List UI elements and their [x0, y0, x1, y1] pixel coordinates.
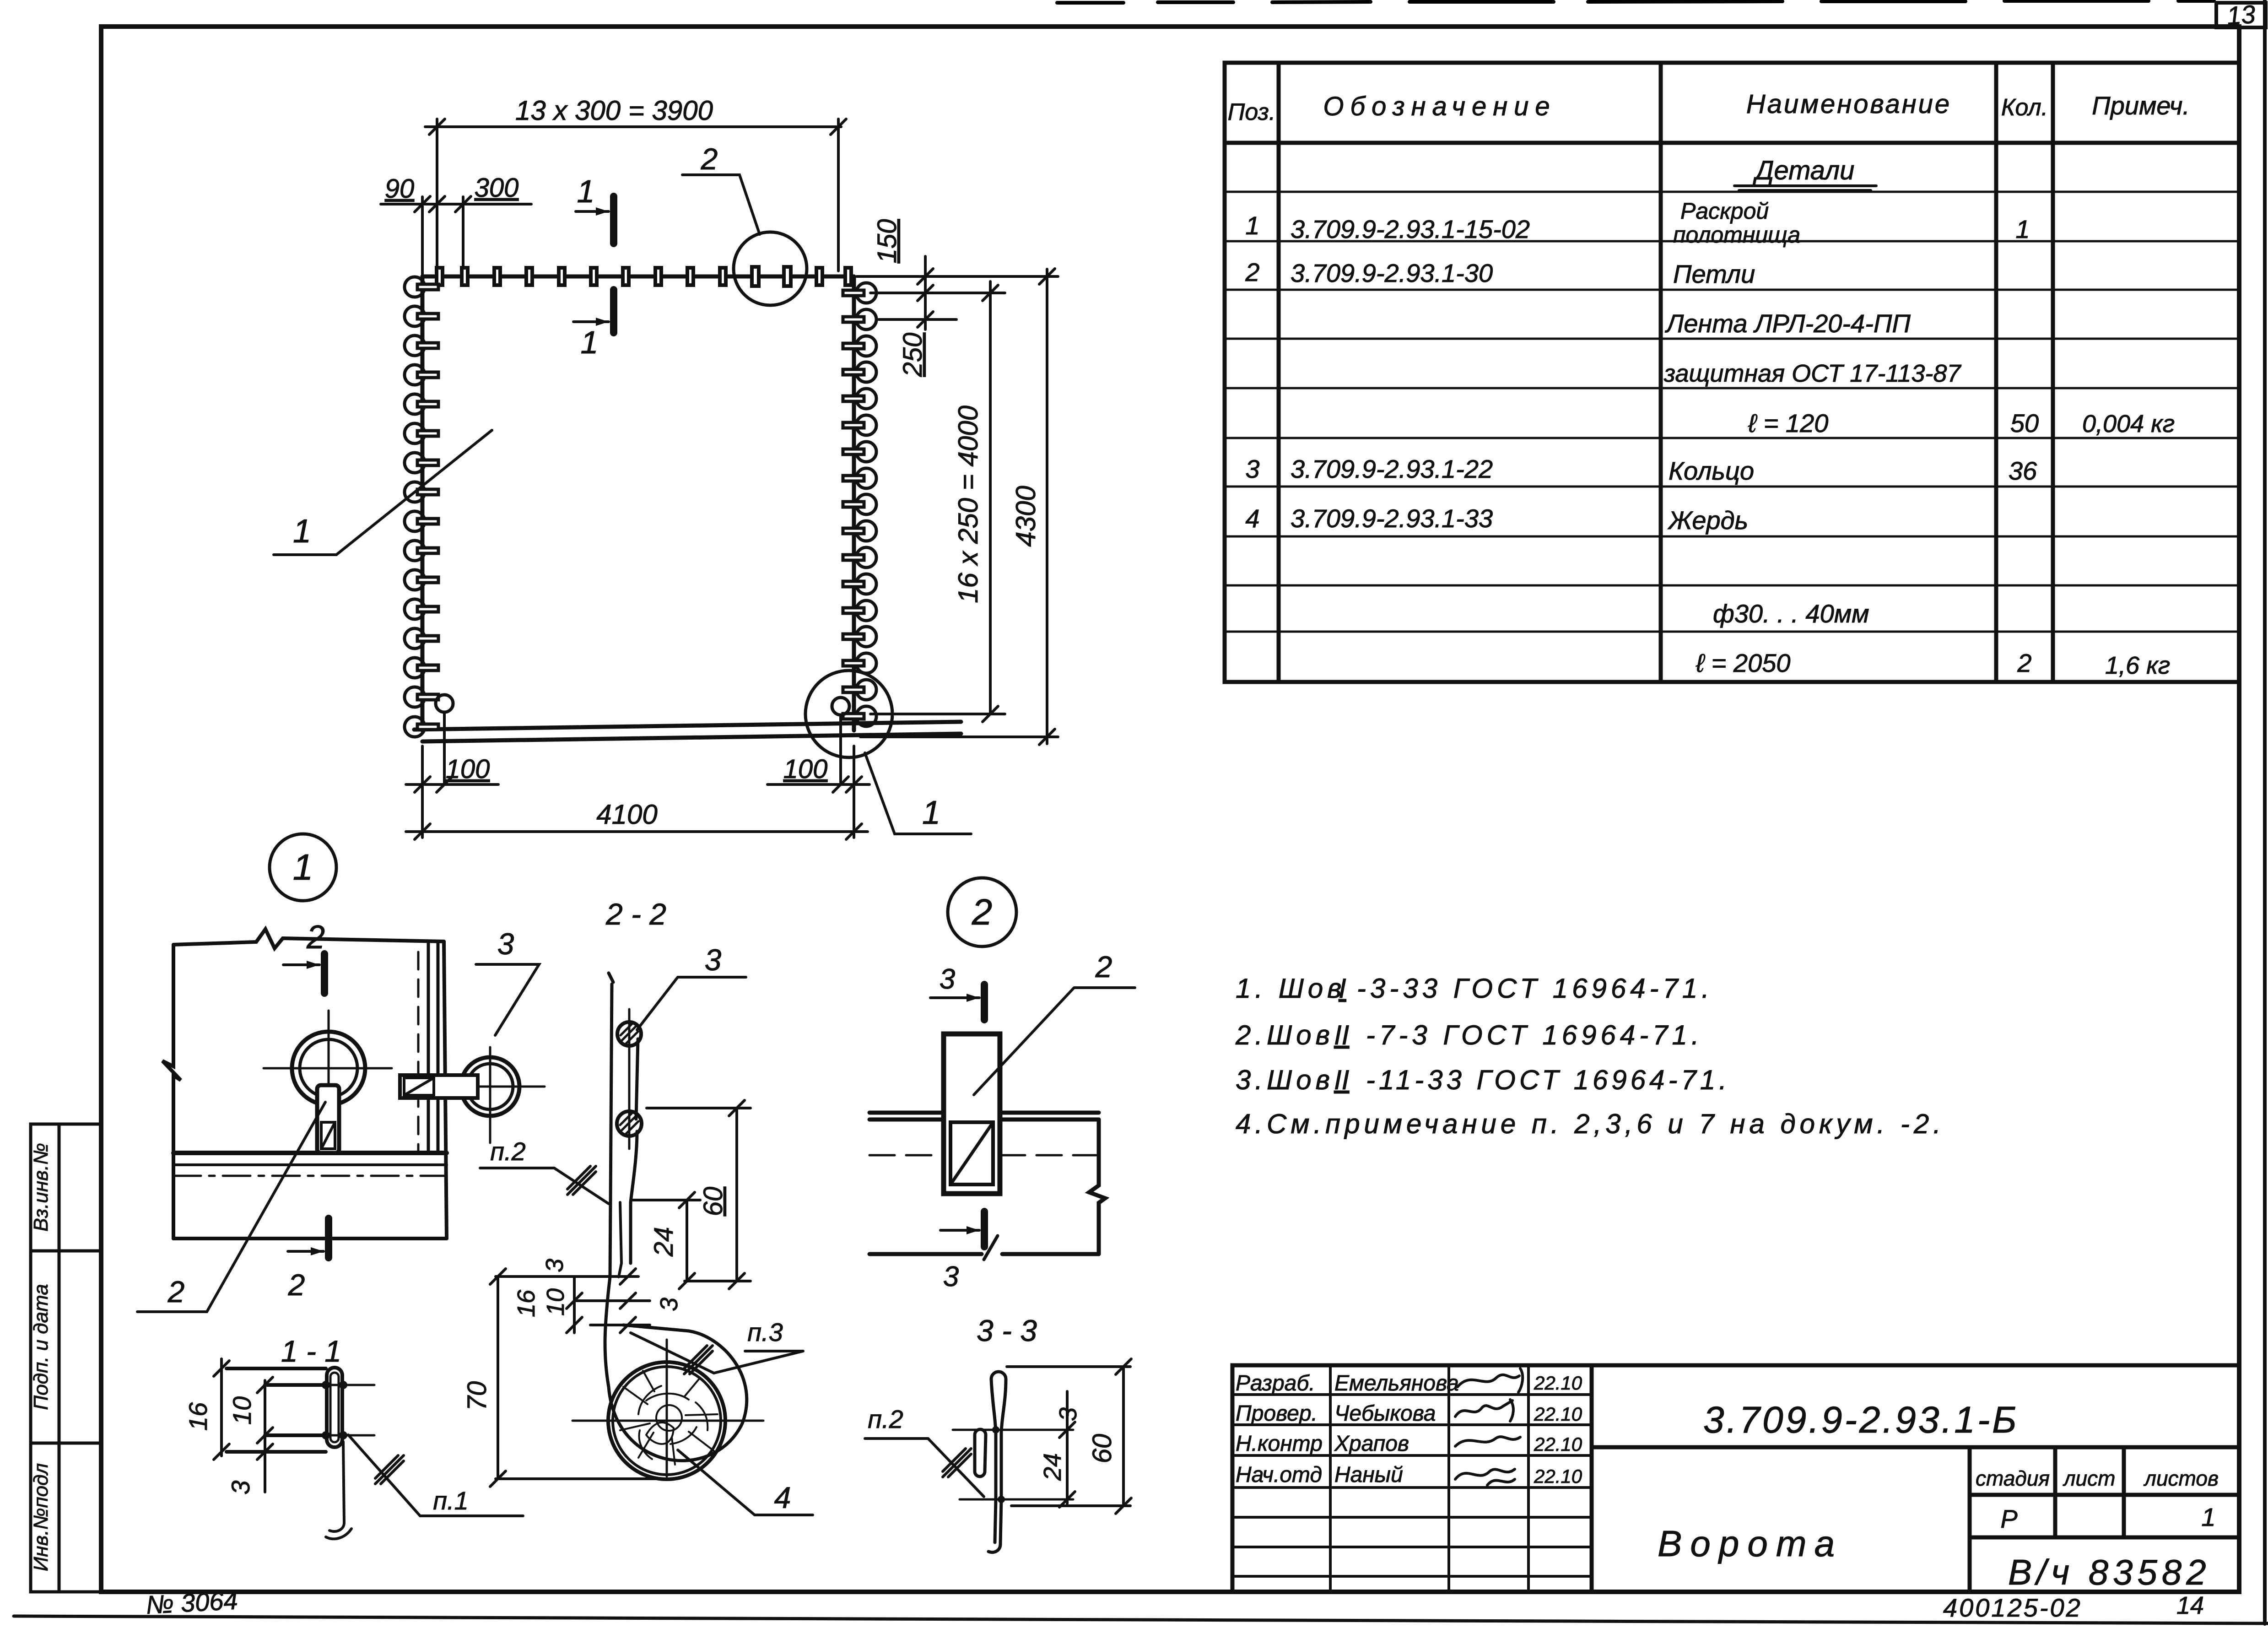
svg-text:22.10: 22.10	[1534, 1433, 1582, 1455]
3-3 small loop	[975, 1429, 986, 1477]
svg-text:Наименование: Наименование	[1746, 89, 1951, 119]
bottom page edge line	[14, 1616, 2268, 1623]
svg-text:3: 3	[705, 943, 722, 977]
svg-text:10: 10	[542, 1288, 569, 1316]
svg-text:3: 3	[226, 1480, 255, 1494]
bottom dim 4100	[406, 830, 868, 833]
1-1 tail hook	[329, 1442, 344, 1531]
svg-text:100: 100	[446, 754, 490, 784]
dimension 90 / 300	[381, 196, 531, 275]
svg-text:II: II	[1334, 1020, 1349, 1050]
svg-text:250: 250	[898, 333, 928, 378]
svg-text:3.709.9-2.93.1-Б: 3.709.9-2.93.1-Б	[1703, 1399, 2019, 1441]
svg-text:Кол.: Кол.	[2001, 94, 2048, 121]
svg-text:3: 3	[943, 1261, 959, 1293]
node1 ring	[292, 1032, 365, 1105]
node1 right ring	[461, 1057, 519, 1116]
3-3 tick lines	[953, 1429, 1073, 1431]
svg-text:3.709.9-2.93.1-33: 3.709.9-2.93.1-33	[1291, 504, 1493, 533]
section mark 1 lower	[610, 290, 617, 333]
balloon 2	[948, 878, 1016, 947]
svg-text:Емельянова: Емельянова	[1334, 1371, 1459, 1395]
node2 loop rect	[944, 1034, 1000, 1194]
svg-text:Наный: Наный	[1334, 1463, 1403, 1487]
3-3 dim 60	[1007, 1359, 1131, 1514]
node1 tie strap to ring	[400, 1075, 478, 1098]
2-2 strap wrap around pole	[605, 1277, 747, 1460]
svg-text:защитная ОСТ 17-113-87: защитная ОСТ 17-113-87	[1663, 360, 1961, 387]
svg-text:16: 16	[513, 1289, 540, 1317]
svg-text:лист: лист	[2063, 1466, 2116, 1490]
3-3 strap profile	[988, 1372, 1006, 1552]
1-1 dim 10	[257, 1377, 273, 1492]
svg-text:Подп. и дата: Подп. и дата	[30, 1284, 52, 1410]
svg-text:3: 3	[940, 963, 955, 995]
bottom dim 100 right	[767, 746, 869, 838]
2-2 small dims 3,3,10,16	[496, 1269, 650, 1333]
svg-text:4100: 4100	[596, 799, 657, 830]
svg-text:150: 150	[872, 219, 902, 264]
svg-text:Храпов: Храпов	[1334, 1432, 1409, 1456]
svg-text:2: 2	[306, 919, 325, 956]
svg-text:2: 2	[1095, 950, 1112, 984]
svg-text:1: 1	[293, 847, 313, 887]
svg-text:Вз.инв.№: Вз.инв.№	[30, 1143, 52, 1232]
svg-text:22.10: 22.10	[1534, 1403, 1582, 1425]
svg-text:п.2: п.2	[490, 1137, 526, 1166]
node2 section mark 3 upper	[981, 984, 988, 1020]
svg-text:400125-02: 400125-02	[1943, 1593, 2082, 1622]
svg-text:Поз.: Поз.	[1228, 99, 1276, 125]
svg-text:2: 2	[2017, 649, 2031, 677]
svg-text:1,6 кг: 1,6 кг	[2105, 652, 2170, 679]
svg-text:листов: листов	[2143, 1466, 2219, 1490]
1-1 dim lines through capsule	[265, 1384, 374, 1386]
svg-text:Лента ЛРЛ-20-4-ПП: Лента ЛРЛ-20-4-ПП	[1665, 309, 1911, 338]
svg-text:ℓ = 120: ℓ = 120	[1748, 409, 1828, 438]
svg-text:4300: 4300	[1010, 486, 1041, 546]
node1 belt loop	[317, 1085, 339, 1153]
dimension 13x300=3900	[425, 119, 846, 271]
svg-text:36: 36	[2009, 456, 2037, 485]
svg-text:2: 2	[1245, 258, 1259, 287]
svg-text:16: 16	[184, 1402, 212, 1431]
svg-text:10: 10	[227, 1396, 256, 1425]
svg-text:3: 3	[1054, 1407, 1082, 1421]
1-1 ring capsule	[327, 1368, 342, 1447]
title block signature grid	[1232, 1365, 1592, 1592]
svg-text:Ворота: Ворота	[1658, 1523, 1843, 1564]
svg-text:ф30. . . 40мм: ф30. . . 40мм	[1713, 599, 1869, 628]
svg-text:-7-3 ГОСТ 16964-71.: -7-3 ГОСТ 16964-71.	[1366, 1020, 1703, 1050]
2-2 dim 24	[633, 1192, 700, 1289]
svg-text:3.Шов: 3.Шов	[1236, 1065, 1334, 1095]
svg-text:ℓ = 2050: ℓ = 2050	[1696, 649, 1791, 677]
2-2 strap main vertical	[609, 973, 613, 1277]
balloon 1	[270, 834, 336, 901]
svg-text:1: 1	[922, 795, 940, 831]
svg-text:Н.контр: Н.контр	[1236, 1432, 1323, 1456]
bottom dim 100 left	[406, 746, 498, 838]
node1 hem band horizontal	[173, 1151, 447, 1155]
scan artifact right edge	[2263, 0, 2267, 1624]
2-2 ring lower	[617, 1111, 642, 1136]
2-2 ring upper	[617, 1022, 641, 1046]
svg-text:300: 300	[475, 173, 519, 203]
leader and label 1 left	[274, 430, 492, 555]
wood grain	[620, 1371, 718, 1465]
node1 section mark 2 upper	[321, 954, 328, 993]
pole hanger ring right	[832, 698, 849, 715]
svg-text:3.709.9-2.93.1-15-02: 3.709.9-2.93.1-15-02	[1291, 215, 1530, 243]
svg-text:24: 24	[649, 1227, 679, 1257]
svg-text:3 - 3: 3 - 3	[977, 1314, 1037, 1347]
svg-text:Нач.отд: Нач.отд	[1236, 1463, 1322, 1487]
svg-text:60: 60	[1087, 1434, 1117, 1464]
svg-text:Примеч.: Примеч.	[2092, 91, 2190, 120]
leader and label 1 bottom right	[865, 753, 971, 834]
svg-text:1: 1	[2201, 1503, 2215, 1531]
svg-text:В/ч 83582: В/ч 83582	[2008, 1552, 2211, 1592]
svg-text:Разраб.: Разраб.	[1236, 1371, 1315, 1395]
svg-text:3.709.9-2.93.1-30: 3.709.9-2.93.1-30	[1291, 259, 1493, 287]
node2 section mark 3 lower	[981, 1212, 988, 1247]
svg-text:Раскрой: Раскрой	[1680, 198, 1769, 224]
left margin boxes	[31, 1124, 101, 1592]
node2 fabric band	[869, 1113, 1105, 1254]
svg-text:3: 3	[541, 1259, 568, 1272]
svg-text:Петли: Петли	[1673, 260, 1755, 288]
2-2 dim 70	[490, 1269, 667, 1487]
detail circle 2 on top edge	[734, 232, 807, 305]
svg-text:90: 90	[385, 174, 415, 204]
pole hanger ring left	[436, 695, 453, 712]
svg-text:-11-33 ГОСТ 16964-71.: -11-33 ГОСТ 16964-71.	[1366, 1065, 1730, 1095]
svg-text:п.1: п.1	[433, 1486, 469, 1515]
svg-text:16 x 250 = 4000: 16 x 250 = 4000	[953, 406, 983, 603]
scan artifact dashes top edge	[1057, 1, 2214, 3]
svg-text:Инв.№подл: Инв.№подл	[30, 1463, 52, 1571]
section mark 1 upper	[610, 196, 617, 243]
svg-text:14: 14	[2176, 1592, 2204, 1619]
2-2 strap lower part	[629, 1202, 632, 1263]
pole (жердь) double line at bottom	[414, 722, 961, 730]
svg-text:Детали: Детали	[1753, 156, 1855, 185]
svg-text:60: 60	[698, 1187, 728, 1217]
panel outline	[422, 276, 854, 730]
svg-text:Чебыкова: Чебыкова	[1334, 1401, 1436, 1426]
svg-text:1 - 1: 1 - 1	[281, 1334, 341, 1368]
svg-text:1. Шов: 1. Шов	[1236, 973, 1346, 1004]
node1 fabric outline	[162, 929, 447, 1239]
sheet number box top-right	[2216, 3, 2266, 27]
svg-text:п.3: п.3	[747, 1318, 783, 1347]
svg-text:22.10: 22.10	[1534, 1372, 1582, 1394]
right dim 4300	[860, 269, 1058, 745]
svg-text:-3-33 ГОСТ 16964-71.: -3-33 ГОСТ 16964-71.	[1357, 973, 1713, 1004]
svg-text:1: 1	[1245, 211, 1259, 240]
svg-text:2: 2	[701, 142, 718, 176]
svg-text:13 x 300 = 3900: 13 x 300 = 3900	[515, 95, 713, 126]
svg-text:13: 13	[2226, 0, 2257, 30]
2-2 strap between rings	[636, 1039, 638, 1119]
2-2 pole circle with wood grain	[608, 1362, 725, 1479]
1-1 piece: fabric edge lines	[227, 1368, 326, 1452]
svg-text:Обозначение: Обозначение	[1323, 92, 1556, 121]
svg-text:4: 4	[1245, 504, 1259, 533]
node1 section mark 2 lower	[325, 1218, 332, 1258]
svg-text:3.709.9-2.93.1-22: 3.709.9-2.93.1-22	[1291, 454, 1493, 483]
svg-text:Провер.: Провер.	[1236, 1401, 1318, 1426]
signature squiggles	[1455, 1368, 1523, 1485]
node1 hem band vertical	[427, 941, 430, 1153]
svg-text:Жердь: Жердь	[1667, 506, 1748, 535]
svg-text:стадия: стадия	[1976, 1466, 2050, 1490]
right edge rings (кольца)	[843, 283, 876, 726]
svg-text:2: 2	[288, 1268, 305, 1302]
svg-text:100: 100	[783, 754, 828, 784]
svg-text:Кольцо: Кольцо	[1669, 456, 1754, 485]
right dim 150	[857, 256, 1058, 330]
right dim 16x250=4000	[870, 281, 1005, 722]
svg-text:I: I	[1339, 973, 1346, 1004]
svg-text:1: 1	[2015, 215, 2030, 243]
svg-text:24: 24	[1039, 1453, 1066, 1481]
svg-text:1: 1	[581, 325, 599, 360]
svg-text:полотнища: полотнища	[1673, 222, 1800, 248]
svg-text:0,004 кг: 0,004 кг	[2082, 410, 2175, 438]
svg-text:3: 3	[1245, 454, 1259, 483]
svg-text:2: 2	[972, 892, 993, 932]
svg-text:22.10: 22.10	[1534, 1466, 1582, 1487]
svg-text:1: 1	[577, 173, 595, 209]
title block outline	[1232, 1365, 2239, 1592]
top seam ticks	[437, 267, 851, 286]
left edge rings (кольца)	[405, 277, 438, 737]
parts table grid	[1225, 63, 2239, 682]
svg-text:3: 3	[655, 1298, 683, 1311]
2-2 dim 60	[647, 1100, 751, 1289]
1-1 label п.1	[348, 1435, 523, 1516]
svg-text:50: 50	[2010, 409, 2039, 438]
svg-text:4: 4	[774, 1481, 791, 1514]
svg-text:2 - 2: 2 - 2	[605, 897, 666, 931]
detail circle 1 around bottom-right corner	[805, 671, 892, 757]
svg-text:2.Шов: 2.Шов	[1235, 1020, 1334, 1050]
1-1 dim 16	[214, 1359, 229, 1460]
svg-text:Р: Р	[2000, 1504, 2017, 1533]
svg-text:2: 2	[167, 1275, 185, 1309]
svg-text:70: 70	[462, 1381, 492, 1411]
svg-text:3: 3	[497, 927, 514, 961]
svg-text:4.См.примечание п. 2,3,6 и 7 н: 4.См.примечание п. 2,3,6 и 7 на докум. -…	[1236, 1109, 1945, 1139]
svg-text:II: II	[1334, 1065, 1349, 1095]
3-3 dim 3 / 24	[1059, 1391, 1075, 1507]
svg-text:№ 3064: № 3064	[145, 1586, 238, 1619]
svg-text:п.2: п.2	[868, 1405, 903, 1433]
svg-text:1: 1	[293, 513, 311, 550]
